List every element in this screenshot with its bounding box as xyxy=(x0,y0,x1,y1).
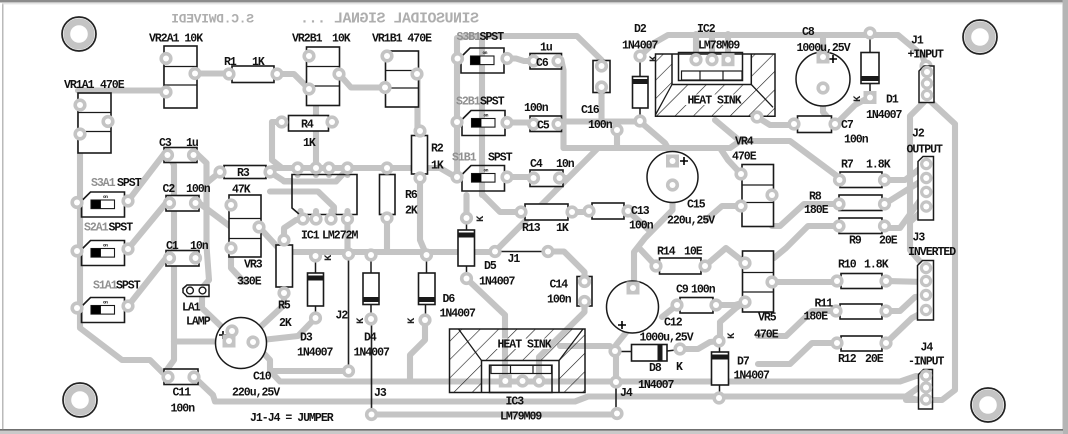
svg-text:10E: 10E xyxy=(684,246,703,259)
svg-text:S.C.DWIVEDI: S.C.DWIVEDI xyxy=(171,12,254,27)
svg-text:100n: 100n xyxy=(629,220,654,233)
svg-text:470E: 470E xyxy=(100,79,125,92)
svg-text:SPST: SPST xyxy=(117,177,142,190)
svg-text:R7: R7 xyxy=(841,159,854,172)
svg-text:R11: R11 xyxy=(815,298,834,311)
svg-text:K: K xyxy=(852,95,864,102)
svg-text:R13: R13 xyxy=(522,222,541,235)
svg-text:J3: J3 xyxy=(374,387,387,400)
svg-text:R2: R2 xyxy=(431,143,444,156)
svg-text:VR5: VR5 xyxy=(758,312,777,325)
svg-text:J4: J4 xyxy=(620,387,633,400)
svg-text:S1B1: S1B1 xyxy=(452,152,477,165)
svg-text:on: on xyxy=(103,244,108,249)
svg-text:C6: C6 xyxy=(536,57,549,70)
svg-text:220u,25V: 220u,25V xyxy=(232,387,280,400)
svg-text:S3B1: S3B1 xyxy=(457,31,482,44)
svg-text:on: on xyxy=(103,301,108,306)
svg-text:C9: C9 xyxy=(676,284,689,297)
svg-text:J1: J1 xyxy=(508,253,521,266)
svg-text:R12: R12 xyxy=(838,353,857,366)
svg-text:LM79M09: LM79M09 xyxy=(500,411,542,424)
svg-text:D1: D1 xyxy=(886,94,899,107)
svg-text:20E: 20E xyxy=(879,235,898,248)
svg-text:K: K xyxy=(355,317,367,324)
svg-text:C4: C4 xyxy=(530,158,543,171)
svg-text:on: on xyxy=(484,169,489,174)
svg-text:OUTPUT: OUTPUT xyxy=(907,144,944,157)
svg-text:220u,25V: 220u,25V xyxy=(667,215,715,228)
svg-text:C11: C11 xyxy=(173,387,192,400)
svg-text:VR4: VR4 xyxy=(735,136,754,149)
svg-text:K: K xyxy=(648,55,660,62)
svg-text:C12: C12 xyxy=(664,317,683,330)
svg-text:1N4007: 1N4007 xyxy=(479,276,516,289)
svg-text:C1: C1 xyxy=(166,240,179,253)
svg-text:C15: C15 xyxy=(687,199,706,212)
svg-text:J3: J3 xyxy=(913,232,926,245)
svg-text:10K: 10K xyxy=(332,33,351,46)
svg-text:100n: 100n xyxy=(844,134,869,147)
svg-text:D4: D4 xyxy=(364,332,377,345)
svg-text:C2: C2 xyxy=(163,183,176,196)
svg-text:100n: 100n xyxy=(691,284,716,297)
svg-text:J1-J4 = JUMPER: J1-J4 = JUMPER xyxy=(250,412,334,425)
svg-text:C7: C7 xyxy=(841,119,854,132)
svg-text:1K: 1K xyxy=(252,56,265,69)
svg-text:S2A1: S2A1 xyxy=(84,222,109,235)
svg-text:R9: R9 xyxy=(849,235,862,248)
svg-text:K: K xyxy=(726,332,738,339)
svg-text:C13: C13 xyxy=(631,205,650,218)
svg-text:R8: R8 xyxy=(809,191,822,204)
svg-text:100n: 100n xyxy=(186,183,211,196)
svg-text:D2: D2 xyxy=(634,23,647,36)
svg-text:R10: R10 xyxy=(838,259,857,272)
svg-text:J4: J4 xyxy=(921,342,934,355)
svg-text:330E: 330E xyxy=(237,276,262,289)
svg-text:1.8K: 1.8K xyxy=(864,259,889,272)
svg-text:2K: 2K xyxy=(405,205,418,218)
svg-text:IC1: IC1 xyxy=(301,230,320,243)
svg-text:VR3: VR3 xyxy=(244,259,263,272)
svg-text:20E: 20E xyxy=(865,353,884,366)
svg-text:1K: 1K xyxy=(556,222,569,235)
svg-text:1N4007: 1N4007 xyxy=(866,109,903,122)
svg-text:+INPUT: +INPUT xyxy=(908,49,945,62)
svg-text:180E: 180E xyxy=(804,311,829,324)
svg-text:R14: R14 xyxy=(657,246,676,259)
svg-text:on: on xyxy=(483,51,488,56)
svg-text:D5: D5 xyxy=(484,260,497,273)
svg-text:1K: 1K xyxy=(431,160,444,173)
svg-text:C16: C16 xyxy=(581,104,600,117)
svg-text:K: K xyxy=(475,215,487,222)
svg-text:J1: J1 xyxy=(911,35,924,48)
svg-text:1000u,25V: 1000u,25V xyxy=(640,332,694,345)
svg-text:VR2B1: VR2B1 xyxy=(292,33,323,46)
svg-text:C3: C3 xyxy=(159,137,172,150)
svg-text:R5: R5 xyxy=(278,300,291,313)
svg-text:on: on xyxy=(103,195,108,200)
svg-text:SPST: SPST xyxy=(480,96,505,109)
svg-text:K: K xyxy=(323,254,335,261)
svg-text:R1: R1 xyxy=(224,56,237,69)
svg-text:1N4007: 1N4007 xyxy=(622,40,659,53)
svg-text:LM78M09: LM78M09 xyxy=(698,40,740,53)
svg-text:100n: 100n xyxy=(547,294,572,307)
svg-text:on: on xyxy=(484,114,489,119)
svg-text:2K: 2K xyxy=(279,317,292,330)
svg-text:SPST: SPST xyxy=(116,280,141,293)
svg-text:R6: R6 xyxy=(405,189,418,202)
svg-text:IC2: IC2 xyxy=(697,23,716,36)
svg-text:S2B1: S2B1 xyxy=(456,96,481,109)
svg-text:1N4007: 1N4007 xyxy=(734,370,771,383)
svg-text:LM272M: LM272M xyxy=(322,230,359,243)
svg-text:VR1B1 470E: VR1B1 470E xyxy=(372,33,432,46)
svg-text:1u: 1u xyxy=(186,137,199,150)
svg-text:1K: 1K xyxy=(303,137,316,150)
svg-text:100n: 100n xyxy=(171,403,196,416)
svg-text:470E: 470E xyxy=(754,329,779,342)
svg-text:J2: J2 xyxy=(912,128,925,141)
svg-text:VR2A1 10K: VR2A1 10K xyxy=(149,33,203,46)
svg-text:D8: D8 xyxy=(649,362,662,375)
svg-text:SINUSOIDAL SIGNAL ...: SINUSOIDAL SIGNAL ... xyxy=(300,11,479,28)
svg-text:D6: D6 xyxy=(443,293,456,306)
svg-text:47K: 47K xyxy=(232,184,251,197)
svg-text:INVERTED: INVERTED xyxy=(908,246,956,259)
svg-text:C14: C14 xyxy=(550,279,569,292)
svg-text:C5: C5 xyxy=(537,120,550,133)
svg-text:VR1A1: VR1A1 xyxy=(64,79,95,92)
svg-text:D3: D3 xyxy=(300,332,313,345)
svg-text:1000u,25V: 1000u,25V xyxy=(797,42,851,55)
svg-text:C8: C8 xyxy=(802,26,815,39)
svg-text:1N4007: 1N4007 xyxy=(354,347,391,360)
svg-text:R3: R3 xyxy=(237,167,250,180)
svg-text:1N4007: 1N4007 xyxy=(297,347,334,360)
svg-text:1.8K: 1.8K xyxy=(866,159,891,172)
svg-text:C10: C10 xyxy=(253,371,272,384)
svg-text:SPST: SPST xyxy=(488,152,513,165)
svg-text:LA1: LA1 xyxy=(182,302,201,315)
svg-text:J2: J2 xyxy=(336,310,349,323)
svg-text:S1A1: S1A1 xyxy=(93,280,118,293)
svg-text:100n: 100n xyxy=(588,119,613,132)
svg-text:-INPUT: -INPUT xyxy=(908,356,945,369)
svg-text:10n: 10n xyxy=(556,158,575,171)
svg-text:1u: 1u xyxy=(540,42,553,55)
svg-text:1N4007: 1N4007 xyxy=(638,379,675,392)
svg-text:HEAT SINK: HEAT SINK xyxy=(498,339,552,352)
svg-text:IC3: IC3 xyxy=(506,396,525,409)
svg-text:HEAT SINK: HEAT SINK xyxy=(688,95,742,108)
svg-text:470E: 470E xyxy=(732,151,757,164)
svg-text:SPST: SPST xyxy=(109,222,134,235)
svg-text:SPST: SPST xyxy=(480,31,505,44)
svg-text:R4: R4 xyxy=(301,119,314,132)
svg-text:10n: 10n xyxy=(190,240,209,253)
svg-text:1N4007: 1N4007 xyxy=(440,308,477,321)
svg-text:K: K xyxy=(406,317,418,324)
svg-text:100n: 100n xyxy=(524,102,549,115)
svg-text:S3A1: S3A1 xyxy=(91,177,116,190)
svg-text:LAMP: LAMP xyxy=(186,316,211,329)
svg-text:180E: 180E xyxy=(804,204,829,217)
svg-text:D7: D7 xyxy=(737,356,750,369)
